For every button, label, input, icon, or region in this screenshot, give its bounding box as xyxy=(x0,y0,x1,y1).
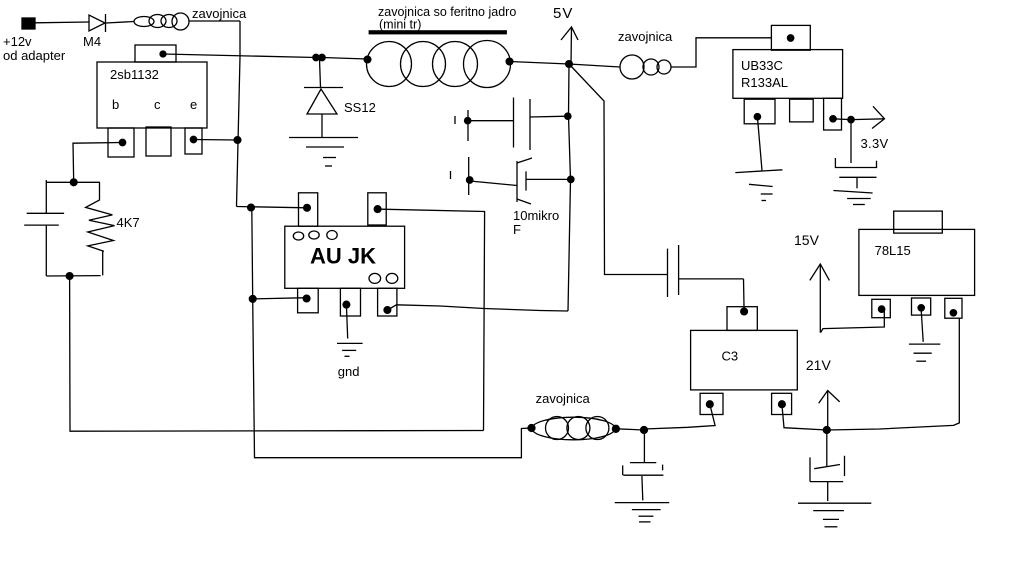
svg-text:(mini tr): (mini tr) xyxy=(379,18,421,32)
node 21V junction xyxy=(823,427,830,434)
ground under U2 left leg xyxy=(735,170,782,201)
node B xyxy=(249,296,256,303)
transformer T1 (4 loops) xyxy=(364,41,513,88)
label 10mikro F xyxy=(513,208,559,237)
IC U1 AU JK xyxy=(285,193,405,316)
input terminal +12V xyxy=(22,18,35,29)
wire node down to capacitor C7 xyxy=(643,431,645,463)
wire 21V node to 78L15 right leg xyxy=(827,318,960,430)
svg-text:C3: C3 xyxy=(722,349,739,364)
svg-text:SS12: SS12 xyxy=(344,100,376,115)
capacitor C8 (21V electrolytic) xyxy=(810,456,845,501)
wire +12V vertical rail down right of Q1 xyxy=(237,21,241,207)
node 5V junction xyxy=(566,61,573,68)
svg-text:2sb1132: 2sb1132 xyxy=(110,67,159,82)
svg-text:F: F xyxy=(513,222,521,237)
wire junction to C6 and R1 xyxy=(46,181,100,183)
label SS12 xyxy=(344,100,376,115)
capacitor C1 (top ceramic near 5V rail) xyxy=(455,98,568,151)
wire Q1 e pin to rail xyxy=(194,139,238,142)
wire Q1 tab to SS12 node xyxy=(163,54,316,58)
wire U1 gnd pin down xyxy=(346,305,347,339)
ground under U1 xyxy=(337,343,363,356)
label +12v od adapter xyxy=(3,34,66,63)
capacitor C4 (coupling) xyxy=(668,245,679,297)
wire U4 left leg to 15V arrow xyxy=(821,310,885,333)
wire Q1 b pin to left junction xyxy=(73,143,123,183)
label zavojnica (L3) xyxy=(536,391,591,406)
label AU JK xyxy=(310,244,376,269)
node A on U1 feed xyxy=(248,204,255,211)
wire node A down to node B xyxy=(251,208,254,299)
wire 5V rail bottom to AU JK pin xyxy=(387,305,568,311)
svg-text:3.3V: 3.3V xyxy=(861,136,889,151)
inductor L3 zavojnica (bottom) xyxy=(528,417,619,440)
IC U3 C3 xyxy=(691,307,798,415)
wire diagonal from 5V node down to coupling cap xyxy=(569,64,667,275)
node SS12 junction (double dot) xyxy=(313,54,325,60)
wire transformer to 5V node xyxy=(510,62,570,65)
ground under C8 xyxy=(798,503,871,527)
inductor L1 zavojnica (top left) xyxy=(134,13,189,30)
node bottom-left junction xyxy=(66,273,73,280)
label M4 xyxy=(83,34,101,49)
capacitor C6 (left) xyxy=(24,180,64,276)
svg-text:78L15: 78L15 xyxy=(875,243,911,258)
ground under C7 xyxy=(615,503,670,522)
label 5V xyxy=(553,5,573,22)
3.3V arrow xyxy=(851,106,885,128)
svg-text:zavojnica: zavojnica xyxy=(192,6,247,21)
svg-text:+12v: +12v xyxy=(3,34,32,49)
wire inductor to corner xyxy=(189,20,240,22)
wire U1 top-left pin to +12V rail xyxy=(237,207,308,208)
svg-text:21V: 21V xyxy=(806,357,832,373)
svg-text:4K7: 4K7 xyxy=(117,215,140,230)
label 4K7 xyxy=(117,215,140,230)
wire R1/C6 bottom junction xyxy=(46,275,100,277)
label 21V xyxy=(806,357,832,373)
svg-text:15V: 15V xyxy=(794,232,820,248)
svg-text:e: e xyxy=(190,97,197,112)
wire left rail down and along bottom xyxy=(70,276,484,431)
diode SS12 xyxy=(304,88,343,138)
wire node to C3 left leg xyxy=(644,404,715,429)
svg-text:R133AL: R133AL xyxy=(741,75,788,90)
wire input to diode M4 xyxy=(35,21,89,24)
15V arrow xyxy=(810,264,830,333)
pin label b xyxy=(112,97,119,112)
wire U2 right leg to 3.3V node xyxy=(833,118,851,121)
wire coupling cap to C3 tab xyxy=(679,279,744,312)
svg-text:od adapter: od adapter xyxy=(3,48,66,63)
node 3.3V xyxy=(848,116,854,122)
svg-text:gnd: gnd xyxy=(338,364,360,379)
svg-text:c: c xyxy=(154,97,161,112)
svg-text:10mikro: 10mikro xyxy=(513,208,559,223)
wire L2 to UB33C tab xyxy=(671,38,771,67)
5V arrow xyxy=(561,27,578,64)
label UB33C R133AL xyxy=(741,58,788,90)
IC U4 78L15 xyxy=(859,211,975,318)
svg-text:b: b xyxy=(112,97,119,112)
node e-pin junction on +12V rail xyxy=(234,137,241,144)
node R1/C6 top junction xyxy=(70,179,77,186)
label gnd xyxy=(338,364,360,379)
wire L3 right to node C7 xyxy=(616,429,644,430)
wire U4 middle leg to ground xyxy=(921,310,923,342)
wire diode to inductor xyxy=(106,22,134,24)
ground under U4 xyxy=(909,344,940,361)
label 3.3V xyxy=(861,136,889,151)
ferrite core bar xyxy=(369,30,507,34)
label 15V xyxy=(794,232,820,248)
svg-text:zavojnica: zavojnica xyxy=(536,391,591,406)
label zavojnica (top left) xyxy=(192,6,247,21)
svg-text:UB33C: UB33C xyxy=(741,58,783,73)
svg-text:zavojnica: zavojnica xyxy=(618,29,673,44)
svg-text:AU JK: AU JK xyxy=(310,244,376,269)
wire node B to U1 bottom-left pin xyxy=(253,298,307,299)
wire junction down to SS12 xyxy=(320,59,321,88)
capacitor C7 (bottom electrolytic) xyxy=(623,463,664,501)
node cap C2 on 5V rail xyxy=(568,176,574,182)
pin label c xyxy=(154,97,161,112)
label C3 xyxy=(722,349,739,364)
label zavojnica (L2) xyxy=(618,29,673,44)
capacitor C5 (3.3V electrolytic) xyxy=(835,158,876,188)
svg-text:5V: 5V xyxy=(553,5,573,22)
transistor Q1 2sb1132 xyxy=(97,45,207,157)
node C7 junction xyxy=(641,427,648,434)
ground under C5 xyxy=(833,191,872,205)
wire 21V node down to capacitor C8 xyxy=(826,431,828,467)
wire C3 right leg to 21V node xyxy=(782,404,827,430)
wire U2 left leg to ground xyxy=(757,117,762,171)
wire 5V node to inductor L2 xyxy=(569,64,620,67)
label 2sb1132 xyxy=(110,67,159,82)
wire junction to transformer xyxy=(322,58,367,60)
wire node B down and around to bottom inductor xyxy=(253,299,532,458)
label zavojnica so feritno jadro (mini tr) xyxy=(378,5,516,32)
wire U1 top-right pin right and down xyxy=(378,209,485,430)
inductor L2 zavojnica (to UB33C) xyxy=(620,55,671,79)
21V arrow xyxy=(819,391,840,429)
svg-text:M4: M4 xyxy=(83,34,101,49)
node cap C1 on 5V rail xyxy=(565,113,571,119)
IC U2 UB33C R133AL xyxy=(733,25,843,130)
wire 5V rail vertical xyxy=(568,64,571,311)
ground under SS12 xyxy=(289,138,358,167)
diode M4 xyxy=(89,14,106,32)
label 78L15 xyxy=(875,243,911,258)
capacitor C2 10mikro F (electrolytic) xyxy=(451,157,571,204)
wire 3.3V node down to capacitor C5 xyxy=(850,120,852,163)
resistor R1 4K7 xyxy=(86,182,115,275)
pin label e xyxy=(190,97,197,112)
